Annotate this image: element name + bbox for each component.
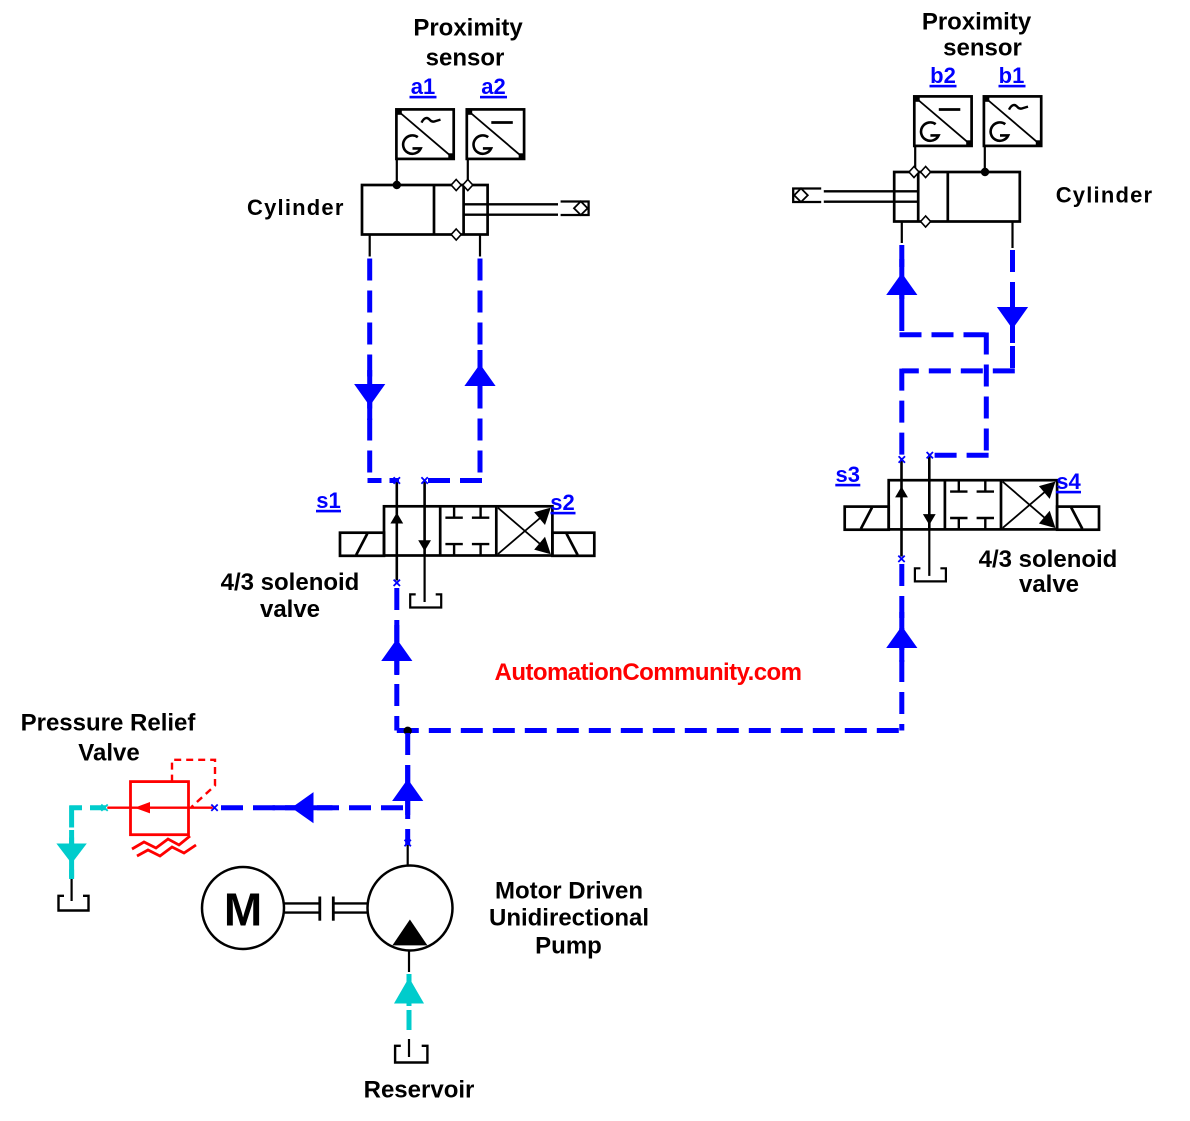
svg-text:a1: a1 bbox=[411, 74, 435, 99]
svg-text:Cylinder: Cylinder bbox=[247, 195, 345, 220]
svg-text:Proximity: Proximity bbox=[922, 9, 1032, 36]
connection x marker relief left port bbox=[101, 805, 107, 811]
flow arrow down on P2 bbox=[997, 293, 1028, 343]
svg-text:Cylinder: Cylinder bbox=[1056, 183, 1154, 208]
svg-text:valve: valve bbox=[260, 596, 320, 623]
wire tank line cyan from relief valve bbox=[70, 806, 107, 880]
pump P1 circle bbox=[368, 866, 453, 951]
flow arrow down on wire A bbox=[354, 370, 385, 420]
4/3 solenoid valve s1-s2 bbox=[340, 506, 594, 607]
svg-text:b2: b2 bbox=[930, 63, 956, 88]
flow arrow up on P1 bbox=[886, 259, 917, 309]
svg-text:AutomationCommunity.com: AutomationCommunity.com bbox=[495, 659, 802, 686]
motor M1 bbox=[202, 867, 284, 949]
svg-text:Unidirectional: Unidirectional bbox=[489, 905, 649, 932]
wire cylinder right A stub bbox=[901, 222, 903, 244]
connection x marker right bbox=[898, 556, 904, 562]
wire cylinder B port stub bbox=[479, 235, 481, 257]
svg-text:s3: s3 bbox=[836, 462, 860, 487]
4/3 solenoid valve s3-s4 bbox=[845, 480, 1099, 581]
connection x marker pump inlet bbox=[405, 840, 411, 846]
valve right A port stub bbox=[900, 458, 903, 481]
connection x markers at valve ports bbox=[394, 477, 400, 483]
proximity sensor a1 bbox=[396, 109, 453, 158]
flow arrow up on right P wire bbox=[886, 612, 917, 662]
wire P2 cylinder to valve A (crossover) bbox=[902, 250, 1015, 461]
flow arrow down on tank line bbox=[56, 830, 86, 878]
wire sensor a1 to cylinder bbox=[396, 159, 398, 185]
svg-text:M: M bbox=[224, 884, 262, 936]
flow arrow up on P wire bbox=[381, 625, 412, 675]
proximity sensor a2 bbox=[467, 109, 524, 158]
valve P port stub down bbox=[395, 556, 398, 581]
svg-text:valve: valve bbox=[1019, 571, 1079, 598]
wire cylinder A port stub bbox=[369, 235, 371, 257]
wire cylinder right B stub bbox=[1011, 222, 1013, 249]
tank symbol left bbox=[59, 896, 89, 911]
wire pump feed black top bbox=[407, 845, 409, 867]
svg-text:s4: s4 bbox=[1056, 469, 1081, 494]
cylinder left bbox=[362, 180, 589, 241]
spring zigzag bbox=[132, 836, 190, 849]
valve right P stub down bbox=[900, 529, 903, 556]
svg-text:s1: s1 bbox=[316, 488, 340, 513]
svg-text:Pressure Relief: Pressure Relief bbox=[21, 710, 197, 737]
wire sensor b2 to cylinder bbox=[914, 146, 916, 172]
pilot dashed line bbox=[172, 760, 215, 807]
svg-text:Pump: Pump bbox=[535, 933, 602, 960]
valve B port stub bbox=[423, 481, 426, 508]
wire P blue down to rail bbox=[394, 588, 399, 731]
svg-text:s2: s2 bbox=[550, 490, 574, 515]
wire relief branch blue bbox=[215, 805, 403, 810]
proximity sensor b2 bbox=[914, 96, 971, 145]
proximity sensor b1 bbox=[984, 96, 1041, 145]
flow arrow up cyan suction bbox=[394, 974, 424, 1006]
svg-text:sensor: sensor bbox=[943, 35, 1022, 62]
shaft motor-pump bbox=[284, 897, 368, 921]
valve A port stub bbox=[395, 481, 398, 508]
flow arrow up on pump feed bbox=[392, 765, 423, 815]
wire sensor b1 to cylinder bbox=[984, 146, 986, 172]
wire pump outlet bottom black bbox=[408, 951, 410, 973]
connection x marker relief right port bbox=[211, 805, 217, 811]
wire sensor a2 to cylinder bbox=[467, 159, 469, 185]
reservoir tank symbol bbox=[395, 1046, 427, 1063]
flow arrow left on relief branch bbox=[273, 792, 333, 823]
wire P1 cylinder to valve B (crossover) bbox=[900, 245, 989, 455]
junction dot on rail bbox=[404, 727, 412, 735]
wire A blue down to valve bbox=[368, 259, 400, 481]
valve right B port stub bbox=[928, 455, 931, 481]
svg-text:4/3 solenoid: 4/3 solenoid bbox=[979, 546, 1118, 573]
svg-text:a2: a2 bbox=[481, 74, 505, 99]
connection x marker bbox=[394, 580, 400, 586]
svg-text:Proximity: Proximity bbox=[413, 15, 523, 42]
svg-text:4/3 solenoid: 4/3 solenoid bbox=[221, 569, 360, 596]
wire suction black end bbox=[408, 1039, 410, 1057]
svg-text:Valve: Valve bbox=[78, 740, 139, 767]
pressure relief valve PRV1 bbox=[107, 760, 215, 856]
wire pump feed up bbox=[405, 733, 410, 845]
wire B blue down to valve bbox=[422, 259, 482, 481]
svg-text:Reservoir: Reservoir bbox=[364, 1077, 475, 1104]
wire tank line black end bbox=[70, 879, 72, 901]
wire right P blue down to rail bbox=[899, 564, 904, 731]
svg-text:sensor: sensor bbox=[426, 45, 505, 72]
flow arrow up on wire B bbox=[464, 350, 495, 400]
wire suction cyan dashes bbox=[407, 1010, 412, 1039]
wire pressure rail bbox=[397, 728, 902, 733]
svg-text:b1: b1 bbox=[999, 63, 1025, 88]
svg-text:Motor Driven: Motor Driven bbox=[495, 878, 643, 905]
pump direction triangle bbox=[392, 920, 427, 946]
connection x markers at right valve ports bbox=[899, 456, 905, 462]
cylinder right (mirrored) bbox=[793, 167, 1020, 228]
